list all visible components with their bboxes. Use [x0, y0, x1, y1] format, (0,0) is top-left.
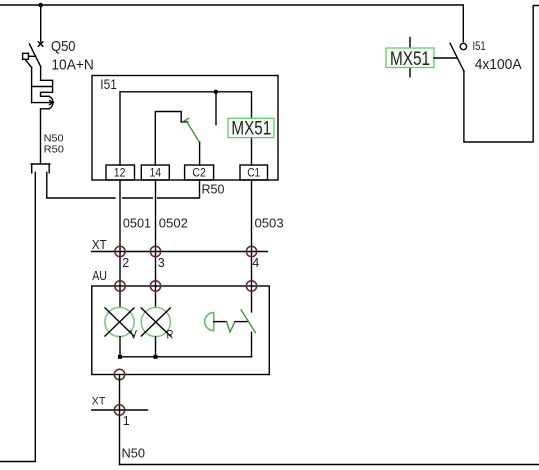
wire XT lower bus: [92, 409, 148, 411]
relay box I51: [92, 76, 278, 181]
link square to blade: [29, 55, 36, 57]
wire lamp R lower: [155, 337, 157, 357]
terminal ring AU top 3: [246, 281, 256, 291]
wire N50 down left: [0, 172, 35, 461]
linkage axis upper: [409, 38, 411, 49]
svg-text:4: 4: [252, 256, 259, 270]
node dot R: [154, 355, 158, 359]
link rod left: [214, 321, 227, 323]
svg-text:10A+N: 10A+N: [51, 57, 94, 74]
pushbutton blade: [241, 310, 255, 333]
terminal box 14: [141, 165, 169, 180]
svg-text:I51: I51: [100, 77, 117, 92]
svg-text:I51: I51: [473, 39, 486, 53]
node dot V: [118, 355, 122, 359]
svg-text:V: V: [130, 328, 137, 342]
terminal ring AU bottom: [114, 369, 124, 379]
terminal plug under Q50: [31, 164, 50, 173]
wire XT bus: [92, 251, 268, 253]
wire N50 bottom bus: [120, 464, 539, 466]
wire C1 drop lower: [251, 138, 253, 165]
svg-text:AU: AU: [92, 268, 107, 283]
linkage bar with arrow: [32, 102, 52, 104]
breaker Q50: [23, 5, 54, 163]
wire NC stub: [215, 92, 217, 125]
terminal ring AU top 1: [115, 281, 125, 291]
link rod to switch: [434, 57, 456, 59]
terminal ring XT:4: [246, 246, 256, 256]
svg-text:N50: N50: [122, 445, 146, 460]
terminal ring XT:1: [114, 405, 124, 415]
svg-text:0503: 0503: [255, 215, 284, 230]
svg-text:1: 1: [123, 414, 130, 428]
svg-text:XT: XT: [92, 396, 106, 408]
link rod right: [235, 321, 247, 323]
blade tick: [183, 118, 188, 121]
wire inner top bus: [120, 92, 252, 165]
neutral pole diagonal: [25, 59, 32, 67]
coil MX51 in I51: [228, 118, 274, 140]
pushbutton in AU: [205, 310, 256, 357]
main pole vertical into trip unit: [40, 67, 42, 80]
svg-text:MX51: MX51: [231, 118, 271, 140]
trip unit lower lead: [41, 109, 50, 164]
svg-text:MX51: MX51: [390, 48, 430, 70]
switch blade: [450, 43, 464, 71]
wire lamp V lower: [119, 337, 121, 357]
terminal box C1: [240, 165, 268, 180]
spring V: [227, 322, 236, 332]
svg-text:0502: 0502: [159, 215, 188, 230]
wire switch input: [462, 5, 464, 42]
svg-text:R50: R50: [202, 182, 225, 197]
svg-text:2: 2: [122, 256, 129, 270]
terminal ring AU top 2: [150, 281, 160, 291]
wire top supply: [0, 4, 463, 6]
wire NO contact from 14: [155, 112, 187, 166]
lamp V: [105, 307, 134, 336]
neutral pole vertical: [31, 67, 33, 102]
svg-text:0501: 0501: [123, 215, 151, 230]
wire 0501: [119, 180, 121, 307]
svg-text:R50: R50: [44, 143, 64, 155]
node inner junction: [214, 90, 218, 94]
trip unit arc: [49, 96, 53, 109]
relay blade green: [186, 121, 200, 143]
svg-text:12: 12: [114, 166, 126, 180]
svg-text:3: 3: [158, 256, 165, 270]
lamp R: [141, 307, 170, 336]
svg-text:R: R: [167, 328, 174, 342]
wire Q50 input drop: [40, 5, 42, 42]
wire 0501 to XT1 and bottom: [119, 375, 121, 465]
actuator square of Q50: [23, 53, 29, 59]
contact circle: [460, 43, 466, 49]
actuator head: [205, 313, 214, 331]
svg-text:C1: C1: [247, 166, 260, 180]
coil MX51 right: [386, 38, 456, 77]
linkage axis lower: [409, 68, 411, 77]
terminal box 12: [106, 165, 135, 180]
wire switch output: [464, 6, 539, 143]
svg-text:4x100A: 4x100A: [475, 56, 522, 73]
contact cross of Q50: [38, 42, 43, 46]
wire R50 from plug to C2 with hops: [47, 172, 200, 198]
terminal box C2: [185, 165, 214, 180]
svg-text:C2: C2: [192, 166, 206, 180]
wire C2 riser: [199, 142, 201, 165]
wire 0503: [251, 180, 253, 312]
terminal ring XT:3: [150, 246, 160, 256]
terminal ring XT:2: [115, 246, 125, 256]
svg-text:14: 14: [149, 166, 161, 180]
wire 0502: [155, 180, 157, 307]
wire pushbutton lower: [251, 332, 253, 357]
trip unit meander: [32, 80, 53, 96]
blade of Q50: [29, 44, 41, 67]
wire AU bottom bus: [120, 356, 252, 358]
svg-text:XT: XT: [92, 237, 107, 252]
svg-text:Q50: Q50: [51, 38, 76, 55]
switch I51: [450, 5, 539, 142]
node junction top: [38, 3, 43, 8]
